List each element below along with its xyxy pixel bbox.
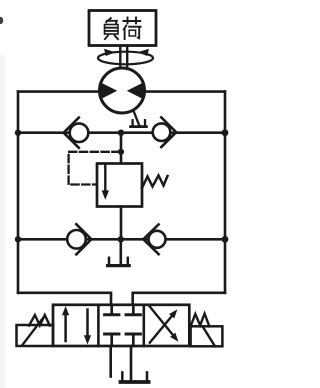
junction dots <box>15 130 21 136</box>
wire pressure port stub <box>109 346 112 377</box>
DV1 right position crossed arrows <box>150 316 172 343</box>
wire left rail to valve port A <box>18 293 111 305</box>
wire left vertical <box>17 92 20 293</box>
wire right vertical <box>224 92 227 293</box>
drain vent reservoir <box>131 120 133 126</box>
check valve V4 (lower right) <box>149 231 166 248</box>
rotation arrow ellipse <box>98 52 153 65</box>
rotation arrowhead right <box>138 49 150 56</box>
wire relief inlet vertical <box>120 133 123 164</box>
shaft (double line) <box>119 46 121 70</box>
wire top rail right <box>144 90 226 93</box>
kanji 荷 <box>123 17 142 41</box>
DV1 left position arrows <box>64 312 67 341</box>
kanji 負 <box>104 18 118 40</box>
wire right rail to valve port B <box>133 293 225 305</box>
wire relief outlet vertical <box>120 207 123 240</box>
spring right <box>191 314 210 327</box>
relief valve RV1 <box>97 164 142 207</box>
DV1 center position blocked ports <box>110 305 113 314</box>
scan artifact left-edge band <box>0 55 5 388</box>
spring left <box>29 315 50 326</box>
directional valve DV1 envelope <box>53 305 189 346</box>
wire top rail left <box>18 90 101 93</box>
motor drain line <box>134 111 140 125</box>
check valve V3 (lower left) <box>67 230 86 249</box>
wire tank port stub <box>130 346 133 381</box>
relief valve spring <box>142 176 168 189</box>
wire tank drop <box>120 239 123 264</box>
solenoid S1 (left actuator) <box>17 325 54 346</box>
scan artifact left-edge blob <box>0 17 3 24</box>
rotation arrowhead left <box>104 49 116 56</box>
pilot line (dashed) <box>69 152 120 185</box>
solenoid S2 (right actuator) <box>191 326 223 346</box>
wire upper cross line <box>18 131 225 134</box>
check valve V2 (upper right) <box>153 123 171 141</box>
wire lower cross line <box>18 238 225 241</box>
check valve V1 (upper left) <box>70 123 89 142</box>
reservoir T2 (bottom) <box>121 372 124 381</box>
reservoir T1 (mid) <box>108 258 111 265</box>
load box 負荷 <box>89 11 156 46</box>
hydraulic motor M1 <box>100 68 145 113</box>
